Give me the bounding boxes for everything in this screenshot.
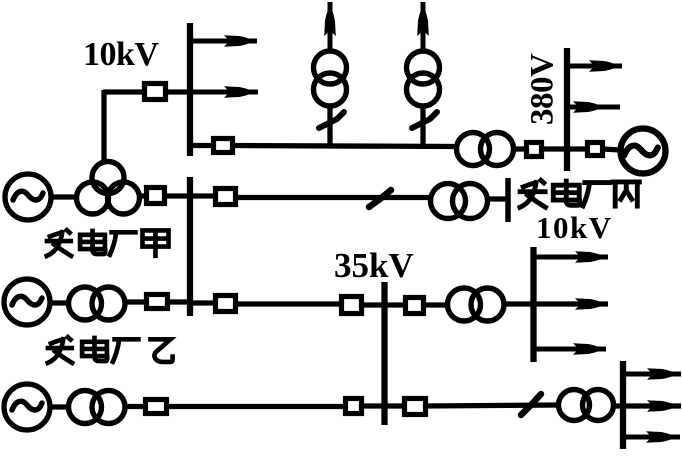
wire busbar to breaker K2 — [187, 143, 214, 148]
label 发电厂丙 — [518, 179, 642, 209]
wire K9 to busbar 35kV — [362, 302, 385, 307]
wire breaker K1 to busbar — [166, 89, 190, 94]
wire K12 to busbar 35kV — [361, 403, 385, 408]
wire vertical from corner down to transformer T1 — [101, 90, 106, 161]
wire T5 to terminal bar — [489, 196, 508, 201]
load arrow A6 — [567, 101, 620, 113]
wire busbar to breaker K6 — [567, 146, 589, 151]
wire K5 to busbar 380V — [542, 146, 567, 151]
wire K4 long line to T5 — [237, 195, 430, 200]
wire K8 long to K9 — [236, 301, 344, 306]
wire K7 to busbar B2 — [167, 299, 190, 304]
load arrow A10 — [623, 368, 681, 380]
wire K13 to T9 — [425, 405, 558, 406]
wire busbar to breaker K13 — [384, 403, 407, 408]
load arrow A2 — [190, 86, 258, 98]
wire T3 down to line — [420, 106, 425, 147]
wire G2 to T6 — [49, 300, 70, 305]
circuit breaker K13 — [405, 399, 426, 415]
wire K6 to generator G4 — [603, 149, 620, 150]
load arrow A12 — [626, 431, 680, 443]
wire T8 to breaker K11 — [126, 404, 148, 409]
transformer T2 (to upper load) — [314, 51, 347, 106]
slash S2 on T3 lead — [412, 112, 437, 128]
transformer T8 — [69, 391, 126, 424]
generator G3 — [4, 384, 50, 430]
wire G1 to T1 — [50, 194, 78, 199]
svg-text:35kV: 35kV — [334, 246, 414, 285]
circuit breaker K6 — [588, 143, 603, 156]
wire K3 to busbar B2 — [164, 193, 190, 198]
circuit breaker K7 — [147, 295, 168, 309]
slash S4 on line — [521, 394, 541, 415]
circuit breaker K5 — [527, 143, 542, 157]
transformer T7 — [448, 288, 505, 321]
wire T6 to breaker K7 — [126, 299, 149, 304]
transformer T3 (to upper load) — [407, 51, 440, 106]
circuit breaker K11 — [146, 400, 167, 414]
load arrow A3 up from T2 — [324, 2, 336, 50]
wire T9 to busbar bottom-right with arrow A11 — [615, 400, 681, 412]
wire busbar to breaker K8 — [190, 300, 218, 305]
wire K2 to transformer T4 — [234, 146, 456, 147]
load arrow A4 up from T3 — [417, 2, 429, 50]
wire G3 to T8 — [49, 404, 70, 409]
label 发电厂甲 — [45, 229, 169, 258]
busbar 10kV right — [530, 247, 536, 362]
wire T4 to breaker K5 — [514, 146, 528, 151]
wire T7 to busbar 10kV right with arrow A8 — [506, 298, 608, 310]
circuit breaker K10 — [406, 298, 424, 314]
load arrow A1 — [190, 35, 257, 47]
transformer T9 — [559, 390, 614, 421]
wire T1 to breaker K3 — [139, 193, 148, 198]
transformer T5 — [431, 184, 488, 219]
busbar 10kV top-left — [187, 23, 193, 156]
load arrow A9 — [536, 343, 606, 355]
wire busbar to breaker K10 — [384, 302, 408, 307]
circuit breaker K2 — [214, 139, 233, 153]
wire K10 to T7 — [424, 302, 448, 307]
wire busbar to breaker K4 — [190, 193, 218, 198]
busbar bottom-right — [620, 361, 626, 449]
circuit breaker K1 — [145, 84, 166, 100]
svg-text:380V: 380V — [525, 53, 561, 125]
terminal bar plant C — [505, 178, 511, 222]
load arrow A7 — [533, 251, 608, 263]
wire T2 down to line — [327, 106, 332, 147]
busbar 380V — [564, 48, 570, 171]
label 发电厂乙 — [46, 336, 173, 365]
transformer T1 three-winding — [77, 162, 140, 215]
wire corner to breaker (10kV feeder) — [103, 89, 145, 94]
generator G2 (plant B) — [4, 279, 50, 325]
busbar B2 — [187, 177, 193, 316]
transformer T6 — [69, 287, 126, 320]
slash S3 on line — [369, 190, 391, 207]
circuit breaker K4 — [216, 189, 236, 205]
circuit breaker K8 — [216, 296, 236, 312]
svg-text:10kV: 10kV — [536, 210, 613, 245]
circuit breaker K9 — [342, 297, 362, 314]
load arrow A5 — [567, 60, 622, 72]
generator G1 (plant A) — [5, 174, 51, 220]
transformer T4 (380V) — [457, 133, 514, 166]
slash S1 on T2 lead — [319, 112, 344, 128]
circuit breaker K12 — [346, 399, 362, 414]
circuit breaker K3 — [147, 188, 165, 204]
busbar 35kV — [381, 282, 387, 425]
wire K11 long to K12 — [166, 404, 348, 409]
generator G4 (power plant C) — [621, 129, 666, 174]
svg-text:10kV: 10kV — [83, 36, 159, 73]
